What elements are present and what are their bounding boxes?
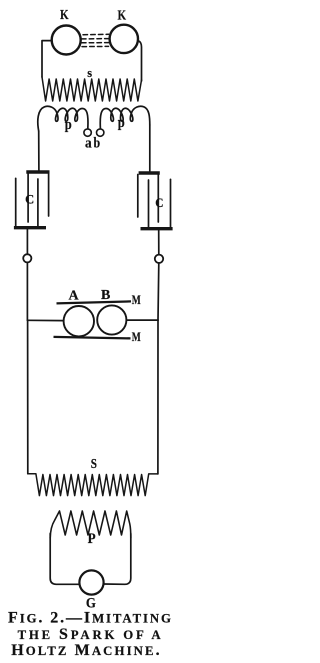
node left bbox=[23, 254, 31, 262]
wire right capacitor down to node bbox=[158, 230, 160, 254]
svg-text:p: p bbox=[118, 115, 125, 131]
svg-text:FIG. 2.—IMITATING: FIG. 2.—IMITATING bbox=[8, 609, 173, 626]
microphone plate M bottom bbox=[54, 337, 131, 339]
wire node right down bbox=[157, 263, 160, 320]
wire left capacitor down to node bbox=[26, 229, 28, 254]
terminal a bbox=[84, 129, 91, 136]
svg-text:S: S bbox=[91, 456, 97, 471]
primary coil p left bbox=[38, 106, 88, 131]
terminal b bbox=[97, 129, 104, 136]
secondary winding s zigzag bbox=[42, 77, 142, 101]
svg-text:P: P bbox=[88, 531, 96, 547]
spark gap dashed lines bbox=[82, 34, 110, 46]
svg-text:C: C bbox=[25, 193, 34, 207]
spark ball K left bbox=[52, 26, 81, 55]
primary coil p right bbox=[100, 106, 150, 128]
carbon ball A bbox=[64, 306, 94, 336]
svg-text:K: K bbox=[118, 8, 127, 23]
wire ball B to right rail bbox=[126, 319, 158, 321]
wire ball K right to secondary bbox=[138, 41, 142, 82]
svg-text:THE SPARK OF A: THE SPARK OF A bbox=[18, 626, 164, 643]
svg-text:a: a bbox=[85, 135, 92, 151]
capacitor C right bbox=[138, 173, 173, 229]
capacitor C left bbox=[14, 172, 50, 228]
wire ball K left to secondary bbox=[42, 41, 52, 77]
resistance S zigzag bbox=[28, 474, 158, 496]
spark ball K right bbox=[110, 25, 138, 53]
wire left rail to ball A bbox=[27, 319, 63, 321]
node right bbox=[155, 255, 163, 263]
galvanometer G bbox=[79, 570, 103, 594]
svg-text:p: p bbox=[65, 117, 72, 133]
winding P zigzag bbox=[50, 511, 131, 538]
svg-text:A: A bbox=[69, 289, 80, 304]
right rail down to S bbox=[157, 320, 159, 474]
svg-text:HOLTZ MACHINE.: HOLTZ MACHINE. bbox=[11, 642, 162, 659]
wire left primary to capacitor bbox=[38, 131, 40, 170]
battery coil P box right wall and bottom bbox=[104, 534, 131, 585]
carbon ball B bbox=[97, 305, 126, 334]
wire node left down bbox=[26, 262, 28, 320]
svg-text:M: M bbox=[132, 329, 141, 344]
svg-text:b: b bbox=[94, 135, 101, 151]
microphone plate M top bbox=[57, 301, 132, 303]
svg-text:K: K bbox=[60, 8, 69, 23]
svg-text:C: C bbox=[155, 195, 163, 210]
left rail down to S bbox=[27, 320, 29, 473]
battery coil P box left wall and bottom bbox=[50, 534, 79, 585]
svg-text:M: M bbox=[132, 292, 141, 307]
svg-text:s: s bbox=[87, 65, 92, 80]
wire right primary to capacitor bbox=[149, 125, 151, 171]
svg-text:B: B bbox=[101, 288, 110, 303]
